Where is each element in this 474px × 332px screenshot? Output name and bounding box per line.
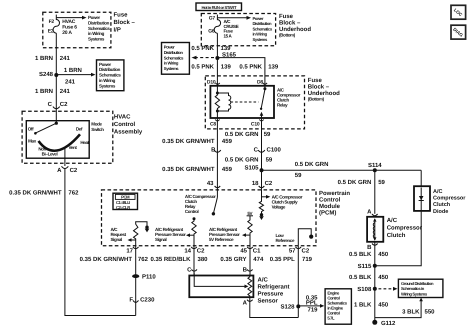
svg-text:Distribution: Distribution [88,20,110,25]
svg-text:719: 719 [307,306,318,313]
svg-text:in Wiring: in Wiring [99,78,116,83]
svg-text:1 BRN: 1 BRN [64,67,82,74]
svg-text:C230: C230 [140,296,155,303]
mode switch common junction [55,122,58,125]
svg-text:Heat: Heat [80,140,89,145]
svg-text:Power: Power [99,62,111,67]
svg-text:Off: Off [28,127,34,132]
svg-text:C: C [48,101,53,108]
svg-text:Control: Control [114,121,136,128]
svg-text:139: 139 [221,64,232,71]
svg-text:459: 459 [222,138,233,145]
svg-text:43: 43 [207,180,214,187]
ground distribution schematics box [398,279,443,297]
PCM driver switch (pin 43) [216,190,218,198]
PCM pin 45 resistor [248,216,252,246]
A/C refrigerant pressure sensor box [189,276,253,298]
svg-text:F: F [129,296,133,303]
wire branch 0.5 PNK 139 to D8 [217,58,265,86]
node S114 [373,168,377,172]
svg-text:S114: S114 [368,162,382,169]
svg-text:Block –: Block – [308,84,330,91]
svg-text:G112: G112 [381,320,396,327]
svg-text:F2: F2 [49,19,55,25]
svg-text:450: 450 [378,301,389,308]
svg-text:18: 18 [252,180,259,187]
relay switch arm [261,90,265,109]
wire arrow to power distribution [56,16,86,20]
A/C refrigerant pressure sensor 5V reference label [209,227,240,242]
svg-text:C2: C2 [302,248,310,255]
svg-text:A: A [57,167,62,174]
mode switch label [91,121,104,132]
svg-text:Signal: Signal [155,237,167,242]
svg-text:0.35 DK GRN/WHT: 0.35 DK GRN/WHT [162,166,215,173]
svg-text:450: 450 [378,274,389,281]
wire 1 BRN 241 lower [55,75,57,123]
svg-text:Clutch: Clutch [433,202,451,208]
svg-text:C10: C10 [251,121,260,127]
diode label [433,189,466,215]
svg-text:P110: P110 [142,274,156,281]
svg-text:Systems: Systems [253,37,268,42]
svg-text:139: 139 [221,45,232,52]
svg-text:1 BLK: 1 BLK [354,301,372,308]
svg-text:Schematics: Schematics [164,55,184,60]
svg-text:Mode: Mode [91,121,102,126]
svg-text:Fuse: Fuse [114,12,129,19]
svg-text:Systems: Systems [164,66,179,71]
svg-text:Module: Module [319,203,341,210]
svg-text:Compressor: Compressor [387,224,423,231]
svg-text:(Bottom): (Bottom) [279,32,296,37]
A/C compressor clutch box [367,217,383,242]
fuse A/C CRUISE symbol [214,18,220,33]
svg-text:Pressure: Pressure [258,290,284,297]
svg-text:A/C: A/C [433,189,443,195]
power distribution schematics box (left) [97,60,124,91]
svg-text:Powertrain: Powertrain [319,190,350,197]
clutch coil symbol [374,219,376,240]
wire arrow to power distribution (mid) [217,16,251,20]
svg-text:241: 241 [60,55,71,62]
svg-text:Systems: Systems [88,37,105,42]
svg-text:B: B [211,147,216,154]
wire 0.35 RED/BLK 380 (pin 14 to sensor C) [193,246,195,276]
svg-text:E2: E2 [48,29,54,35]
svg-text:HVAC: HVAC [114,114,131,121]
Powertrain Control Module (PCM) label [319,190,350,217]
svg-text:(Bottom): (Bottom) [308,97,325,102]
svg-text:(PCM): (PCM) [319,210,336,217]
node S105 [260,168,264,172]
low reference label [276,233,295,243]
svg-text:Reference: Reference [276,238,295,243]
wire 762 from pin 17 through P110/C230 [135,246,137,316]
svg-text:Schematics: Schematics [88,26,110,31]
fuse block I/P label [114,12,136,34]
svg-text:0.35 DK GRN/WHT: 0.35 DK GRN/WHT [80,256,133,263]
PCM pin 18 internal source dot-arrow [260,213,263,216]
sensor label [258,276,290,304]
svg-text:B: B [367,244,372,251]
svg-text:719: 719 [302,256,313,263]
svg-text:G6: G6 [208,29,215,35]
svg-text:Diode: Diode [433,209,448,215]
svg-text:DIAG: DIAG [452,27,464,38]
svg-text:Hot in RUN or START: Hot in RUN or START [201,5,236,10]
svg-text:1 BRN: 1 BRN [35,55,53,62]
svg-text:C2: C2 [265,180,273,187]
svg-text:Refrigerant: Refrigerant [258,283,290,290]
inline connector P110 [132,274,139,278]
wire C10 down to PCM 18 [261,118,263,190]
wire sensor A to low reference net [250,297,298,317]
svg-text:G7: G7 [209,15,216,21]
svg-text:Fuse: Fuse [279,13,294,20]
svg-text:Def: Def [76,127,83,132]
svg-text:241: 241 [65,78,76,85]
svg-text:D10: D10 [207,79,216,85]
wire diode to S115 [375,211,421,266]
A/C compressor clutch supply voltage label arrow [262,195,271,199]
engine control schematics box [325,289,351,324]
svg-text:C2=CLR: C2=CLR [116,205,130,210]
wire C8 down to PCM 43 [216,118,218,190]
mode switch wiper arm to Off [36,123,56,133]
nav button LOC [451,5,466,19]
wire 0.35 PPL 719 (pin 57 to S128) [297,246,299,318]
svg-text:Switch: Switch [91,127,104,132]
svg-text:5V Reference: 5V Reference [209,237,234,242]
svg-text:Sensor: Sensor [258,297,279,304]
dashed arrow S165 to power distribution box [192,56,215,60]
PCM pin 17 pull-up resistor [134,222,148,240]
svg-text:Schematics: Schematics [99,73,121,78]
svg-text:Distribution: Distribution [99,67,121,72]
node S248 [54,73,58,77]
mode switch contact arc [39,134,81,150]
svg-text:Systems: Systems [99,83,116,88]
svg-text:Relay: Relay [277,103,288,108]
HVAC control assembly label [114,114,143,136]
wire 0.35 GRY 474 (pin 45 to sensor B) [249,246,251,276]
clutch label [387,217,423,239]
svg-text:20 A: 20 A [62,30,72,36]
fuse block underhood (relay) dashed box [205,76,304,129]
svg-text:S115: S115 [358,263,372,270]
svg-text:C100: C100 [267,147,282,154]
svg-text:139: 139 [268,64,279,71]
svg-text:59: 59 [378,179,385,186]
arrow S128 to engine control box [298,304,324,308]
PCM pin 14 resistor [193,217,196,220]
A/C compressor clutch relay control label [185,194,216,214]
svg-text:Max: Max [28,139,37,144]
dashed arrow S108 to ground distribution box [379,287,398,291]
svg-text:0.5 DK GRN: 0.5 DK GRN [225,156,259,163]
svg-text:762: 762 [68,189,79,196]
svg-text:C8: C8 [210,121,216,127]
svg-text:Fuse: Fuse [308,77,323,84]
wire clutch B to S115 (0.5 BLK 450) [374,242,376,266]
svg-text:A/C: A/C [387,217,398,224]
relay linkage (dashed) [231,101,259,103]
svg-text:762: 762 [138,256,149,263]
relay coil (zigzag) [215,93,219,111]
power distribution schematics note (in fuse block) [88,15,110,42]
wire S108 to G112 (1 BLK 450) [374,289,376,323]
node S115 [373,264,377,268]
svg-text:474: 474 [253,256,264,263]
PCM dashed box [102,190,317,246]
svg-text:C1: C1 [253,248,261,255]
svg-text:15 A: 15 A [224,33,233,38]
sensor wiper from pin C [194,273,248,289]
svg-text:I/P: I/P [114,27,121,34]
svg-text:Voltage: Voltage [272,205,286,210]
svg-text:0.5 PNK: 0.5 PNK [239,64,262,71]
wire 3 BLK 550 up-arrow into ground distribution box [375,298,423,318]
svg-text:45: 45 [240,248,247,255]
wire 1 BRN 241 upper [55,33,57,75]
svg-text:Power: Power [164,45,175,50]
svg-text:241: 241 [60,88,71,95]
wire from mode switch to pin A [64,148,66,166]
hot in RUN or START tag [196,3,242,11]
power distribution schematics note (in mid fuse block) [253,16,273,42]
node S128 [296,304,300,308]
wire S114 down to clutch A (0.5 DK GRN 59) [374,170,376,214]
svg-text:5V: 5V [247,211,252,216]
svg-text:S128: S128 [280,304,295,311]
mode switch solid box [26,121,89,159]
svg-text:0.5 DK GRN: 0.5 DK GRN [295,161,329,168]
svg-text:S248: S248 [39,71,54,78]
PCM pin 18 sense resistor [259,190,263,214]
svg-text:380: 380 [198,256,209,263]
PCM pin 14 input arrow [186,233,194,237]
fuse block underhood label [279,13,311,38]
label 0.35 PPL 719 (branch) [306,295,318,314]
fuse block I/P dashed box [43,12,111,48]
svg-text:D8: D8 [257,79,263,85]
svg-text:0.5 PNK: 0.5 PNK [191,45,214,52]
nav button DIAG [451,25,466,39]
svg-text:C: C [254,147,259,154]
svg-text:0.35 RED/BLK: 0.35 RED/BLK [150,256,191,263]
ground G112 [372,320,377,325]
svg-text:Block –: Block – [114,19,136,26]
svg-text:Block –: Block – [279,19,301,26]
svg-text:LOC: LOC [453,7,464,17]
svg-text:Distribution: Distribution [164,50,184,55]
wire S105 to S114 (0.5 DK GRN 59) [262,169,422,171]
wire S115 to S108 (0.5 BLK 450) [374,266,376,289]
svg-text:0.5 DK GRN: 0.5 DK GRN [338,179,372,186]
svg-text:0.5 DK GRN: 0.5 DK GRN [225,131,259,138]
A/C request signal label [111,227,127,242]
relay coil wire out [216,111,218,118]
svg-text:PCM: PCM [121,195,130,200]
svg-text:59: 59 [295,172,302,179]
svg-text:in Wiring: in Wiring [164,61,179,66]
svg-text:Power: Power [88,15,100,20]
svg-text:459: 459 [222,166,233,173]
svg-text:Control: Control [319,196,341,203]
svg-text:C2: C2 [197,248,205,255]
svg-text:Bi–Level: Bi–Level [42,151,58,156]
svg-text:0.35 PPL: 0.35 PPL [270,256,295,263]
svg-text:Compressor: Compressor [433,196,466,202]
svg-text:0.5 BLK: 0.5 BLK [349,274,372,281]
svg-text:59: 59 [266,156,273,163]
svg-text:PPL: PPL [306,300,318,307]
svg-text:1 BRN: 1 BRN [35,88,53,95]
relay fixed contact with arrow [260,112,264,118]
svg-text:57: 57 [289,248,296,255]
fuse block underhood (top) dashed box [201,14,275,46]
svg-text:3 BLK: 3 BLK [402,308,420,315]
node S108 [373,287,377,291]
A/C compressor clutch diode branch wire [420,170,422,186]
svg-text:in Wiring: in Wiring [88,31,105,36]
svg-text:Assembly: Assembly [114,129,143,136]
relay switch common [264,86,266,88]
svg-text:0.35 GRY: 0.35 GRY [220,256,246,263]
svg-text:0.35 DK GRN/WHT: 0.35 DK GRN/WHT [162,138,215,145]
svg-text:S105: S105 [244,164,259,171]
wire 0.5 PNK 139 upper [216,33,218,58]
svg-text:5.7L: 5.7L [327,315,335,320]
PCM pin 17 input arrow [128,238,136,242]
svg-text:Wiring Systems: Wiring Systems [401,291,428,296]
A/C compressor clutch diode box [414,186,430,211]
diode symbol [420,188,422,211]
svg-text:Control: Control [185,209,199,214]
svg-text:S108: S108 [357,286,372,293]
svg-text:0.5 PNK: 0.5 PNK [191,64,214,71]
wire fuse G7 stub [216,15,218,18]
node S165 [215,56,219,60]
wire 0.35 DK GRN/WHT 762 (left run) [65,169,136,316]
PCM pin 17 internal source dot-arrow [145,226,148,229]
relay coil parallel element [217,93,230,111]
svg-text:0.5 BLK: 0.5 BLK [349,251,372,258]
A/C compressor clutch relay box [210,86,274,118]
relay label [277,88,301,108]
svg-text:C2: C2 [60,101,68,108]
wire pin 17 to edge [135,240,137,246]
svg-text:14: 14 [184,248,191,255]
svg-text:C2: C2 [70,167,78,174]
A/C refrigerant pressure sensor signal label [155,227,186,242]
svg-text:Signal: Signal [111,237,123,242]
wire 0.5 PNK 139 to D10 [216,58,218,86]
relay coil wire in [216,86,218,93]
wire branch S248 to power distribution box [56,73,95,77]
PCM pin 57 internal termination [298,229,311,246]
svg-text:0.35 DK GRN/WHT: 0.35 DK GRN/WHT [9,189,62,196]
PCM connector legend box [113,193,138,209]
wire fuse F2 stub [55,15,57,18]
fuse block underhood (relay) label [308,77,340,102]
A/C CRUISE Fuse 15 A value label [224,19,239,38]
svg-text:A: A [367,208,372,215]
power distribution schematics box (mid) [162,43,190,75]
fuse HVAC Fuse 6 symbol [53,18,59,33]
svg-text:A/C: A/C [258,276,269,283]
svg-text:550: 550 [425,308,436,315]
svg-text:17: 17 [126,248,133,255]
PCM pin 45 input arrow [242,233,250,237]
svg-text:Clutch: Clutch [387,232,406,239]
svg-text:59: 59 [264,131,271,138]
svg-text:450: 450 [378,251,389,258]
HVAC control assembly dashed box [22,111,113,163]
HVAC Fuse 6 20 A value label [62,19,77,36]
sensor potentiometer element [248,276,252,298]
